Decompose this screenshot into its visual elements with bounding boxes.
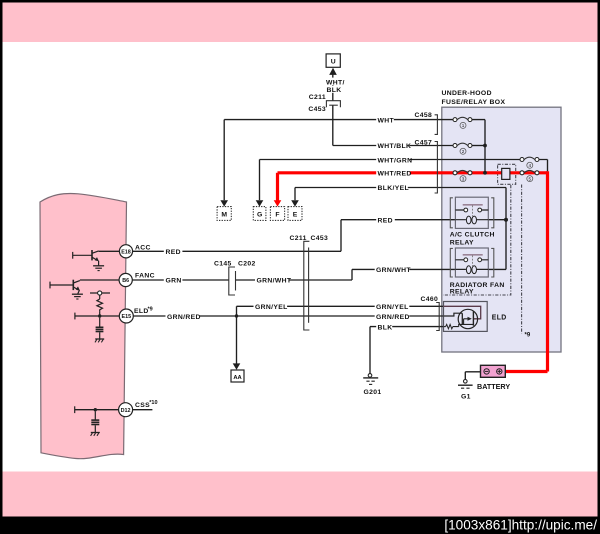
svg-text:*9: *9 <box>525 332 531 338</box>
svg-text:GRN: GRN <box>166 278 182 285</box>
radiator fan relay U2 <box>450 248 505 295</box>
arrow into G <box>256 200 264 206</box>
svg-text:WHT/GRN: WHT/GRN <box>378 157 413 164</box>
wire label GRN/RED (ELD) <box>375 312 410 320</box>
terminal E15 <box>119 309 133 323</box>
tick D12 row end <box>74 406 76 413</box>
svg-text:RED: RED <box>378 217 393 224</box>
wire fuse1 to junction vertical <box>472 120 485 173</box>
ground (E15 filter) <box>95 339 104 342</box>
wire fuse2 to junction <box>472 145 485 147</box>
wire WHT row <box>224 119 453 121</box>
connector box U <box>326 54 340 67</box>
connector box G <box>253 207 266 221</box>
wire label BLK <box>376 323 392 331</box>
svg-text:C453: C453 <box>311 235 329 242</box>
arrow into M <box>220 200 228 206</box>
svg-text:U: U <box>331 58 336 65</box>
ground (Q2 emitter) <box>72 294 83 299</box>
fuse 4 <box>520 157 539 168</box>
fuse 5 <box>520 171 539 182</box>
svg-text:RELAY: RELAY <box>450 240 474 247</box>
wire BLK/YEL row <box>295 187 506 189</box>
wire label RED (relay) <box>376 216 395 224</box>
wire fuse4 to red corner <box>539 160 547 172</box>
wire GRN/YEL row <box>237 305 444 307</box>
svg-text:RED: RED <box>166 249 181 256</box>
connector C457 bracket <box>435 142 438 194</box>
svg-text:A/C CLUTCH: A/C CLUTCH <box>450 231 495 238</box>
connector C211/C453 top <box>326 101 340 108</box>
wire GRN/WHT to fan relay coil <box>352 268 455 270</box>
wire GRN from B6 <box>132 279 229 281</box>
bottom pink bar <box>3 472 598 517</box>
tick E15 row end <box>74 313 76 320</box>
arrow into E <box>291 200 299 206</box>
wire red to battery <box>505 370 547 373</box>
svg-text:C460: C460 <box>421 296 439 303</box>
connector C460 bracket <box>436 303 439 331</box>
wire WHT/RED horizontal <box>278 171 548 174</box>
wire WHT/GRN row <box>260 159 520 161</box>
svg-text:C202: C202 <box>238 260 256 267</box>
svg-text:1: 1 <box>462 123 465 128</box>
svg-text:E18: E18 <box>121 249 131 255</box>
connector box M <box>217 207 231 221</box>
wire label GRN/WHT (mid) <box>255 276 289 284</box>
svg-text:3: 3 <box>462 176 465 181</box>
svg-text:*10: *10 <box>149 400 157 406</box>
wire label WHT <box>376 115 394 123</box>
wire RED jog up <box>340 220 342 252</box>
wire D12 stub CSS <box>133 409 153 411</box>
ground (Q1 emitter) <box>93 266 104 271</box>
svg-text:C211: C211 <box>290 235 307 242</box>
svg-text:C457: C457 <box>415 139 433 146</box>
connector box F <box>270 207 284 221</box>
wire label WHT/BLK (top) <box>326 78 345 85</box>
node E15 junction <box>98 314 101 317</box>
svg-text:ELD: ELD <box>134 308 149 315</box>
svg-text:M: M <box>221 211 227 218</box>
arrow up into U <box>329 68 337 75</box>
svg-text:BATTERY: BATTERY <box>477 382 510 391</box>
svg-text:C458: C458 <box>415 112 433 119</box>
terminal D12 <box>119 403 133 417</box>
svg-text:RELAY: RELAY <box>450 288 474 295</box>
dash-dot box around fuse link <box>498 164 516 184</box>
wire WHT/GRN corner down to G <box>259 160 261 201</box>
black wires <box>75 75 548 410</box>
fuse 3 <box>453 171 472 182</box>
ground (CSS filter) <box>91 433 100 436</box>
wire GRN/RED row from E15 <box>133 315 443 317</box>
connector box AA <box>231 370 244 382</box>
svg-text:F: F <box>275 211 279 218</box>
svg-text:GRN/RED: GRN/RED <box>167 314 201 321</box>
svg-text:GRN/WHT: GRN/WHT <box>257 278 292 285</box>
svg-text:GRN/YEL: GRN/YEL <box>376 304 409 311</box>
wire GRN/WHT after C202 <box>236 279 353 281</box>
dash-dot border around relays <box>443 185 511 295</box>
junction dot GRN/YEL branch <box>235 314 238 317</box>
wire label GRN/WHT (relay) <box>375 265 410 273</box>
ELD unit <box>444 302 507 332</box>
svg-text:GRN/WHT: GRN/WHT <box>376 267 411 274</box>
wire BLK down to G201 <box>369 327 371 374</box>
red arrow into F <box>274 200 282 206</box>
svg-text:ACC: ACC <box>135 245 151 252</box>
svg-text:ELD: ELD <box>492 315 507 322</box>
ground G201 <box>363 374 381 397</box>
top pink bar <box>3 3 598 43</box>
wire battery to G1 <box>465 372 480 380</box>
transistor Q2 (FANC driver) <box>50 280 119 294</box>
capacitor C1 <box>96 318 104 339</box>
svg-text:G: G <box>257 211 262 218</box>
wire label GRN (B6) <box>164 276 183 284</box>
terminal B6 <box>119 273 132 286</box>
fusible link square <box>502 168 510 179</box>
fuse 1 <box>453 117 472 128</box>
under-hood fuse/relay box <box>442 107 561 352</box>
wire E15 row inside ECM <box>75 315 119 317</box>
connector C145/C202 <box>229 267 235 295</box>
svg-text:E: E <box>293 211 298 218</box>
wire WHT corner down to M <box>223 120 225 201</box>
svg-text:5: 5 <box>529 176 532 181</box>
svg-text:FUSE/RELAY BOX: FUSE/RELAY BOX <box>442 99 506 106</box>
wire label RED (E18) <box>164 247 183 255</box>
red power path: battery to WHT/RED and F <box>278 171 548 371</box>
pull-up rail for ELD input <box>90 293 110 299</box>
capacitor C2 (CSS filter) <box>91 411 99 432</box>
transistor Q1 (ACC driver) <box>73 250 120 266</box>
wire BLK/YEL corner down to E <box>294 188 296 201</box>
battery <box>477 365 510 391</box>
wire GRN/WHT jog up <box>351 269 353 280</box>
terminal E18 <box>119 245 132 258</box>
wire RED from E18 <box>133 250 341 252</box>
svg-text:WHT/RED: WHT/RED <box>378 171 412 178</box>
dash-dot variant line *9 <box>521 185 523 334</box>
svg-text:G201: G201 <box>364 389 382 396</box>
wire red vertical down right side <box>546 171 549 371</box>
connector C211/C453 tall <box>304 241 310 330</box>
wire label BLK/YEL <box>376 183 408 191</box>
svg-text:GRN/RED: GRN/RED <box>376 314 410 321</box>
wire D12 row inside ECM <box>75 409 119 411</box>
svg-text:*9: *9 <box>148 307 153 313</box>
svg-text:G1: G1 <box>461 394 471 401</box>
svg-text:BLK: BLK <box>378 324 393 331</box>
wire red vertical to F <box>276 173 279 201</box>
svg-text:BLK: BLK <box>327 87 342 94</box>
svg-text:[1003x861]http://upic.me/: [1003x861]http://upic.me/ <box>444 517 597 532</box>
wire label GRN/RED (E15) <box>166 312 200 320</box>
svg-text:UNDER-HOOD: UNDER-HOOD <box>442 90 492 97</box>
wire label WHT/BLK <box>376 141 409 149</box>
svg-text:FANC: FANC <box>135 272 155 279</box>
wire U connector to WHT/BLK row <box>333 105 453 145</box>
wire fan coil to BLK/YEL vertical <box>488 268 506 270</box>
wire from U down <box>332 75 334 101</box>
svg-text:BLK/YEL: BLK/YEL <box>378 185 410 192</box>
wire label WHT/GRN <box>376 155 410 163</box>
svg-text:WHT/: WHT/ <box>326 79 345 86</box>
svg-text:GRN/YEL: GRN/YEL <box>255 304 288 311</box>
connector box E <box>288 207 302 221</box>
svg-text:WHT: WHT <box>378 117 395 124</box>
junction dot fuse1/2 feed <box>483 144 487 148</box>
wire BLK row from ELD <box>370 326 444 328</box>
ECM/PCM block <box>40 193 127 458</box>
svg-text:CSS: CSS <box>135 402 150 409</box>
A/C clutch relay U1 <box>450 197 495 246</box>
svg-text:4: 4 <box>529 163 532 168</box>
arrow into AA <box>233 363 241 369</box>
svg-text:B6: B6 <box>122 278 129 284</box>
svg-text:D12: D12 <box>121 408 131 414</box>
svg-text:E15: E15 <box>122 314 132 320</box>
svg-text:C145: C145 <box>214 260 232 267</box>
connector C458 bracket <box>435 115 438 135</box>
wire RED to A/C relay coil <box>341 219 455 221</box>
resistor R1 <box>97 299 103 311</box>
junction dot on red wire <box>483 171 487 175</box>
wire label GRN/YEL (mid) <box>254 302 288 310</box>
svg-text:C211: C211 <box>309 94 326 101</box>
svg-text:C453: C453 <box>308 106 326 113</box>
watermark bar <box>0 517 600 534</box>
wire BLK/YEL vertical to relay coils <box>505 188 507 270</box>
junction dot BLK/YEL at A/C coil <box>504 218 508 222</box>
svg-text:WHT/BLK: WHT/BLK <box>378 143 412 150</box>
node D12 junction <box>94 408 97 411</box>
wire label GRN/YEL (ELD) <box>375 302 410 310</box>
wire GRN/YEL branch down to AA <box>236 306 238 364</box>
fuse 2 <box>453 143 472 154</box>
svg-text:AA: AA <box>233 375 242 381</box>
svg-text:2: 2 <box>462 149 465 154</box>
wire A/C coil to BLK/YEL junction <box>488 219 506 221</box>
wire label WHT/RED <box>376 169 410 177</box>
ground G1 <box>458 380 473 401</box>
